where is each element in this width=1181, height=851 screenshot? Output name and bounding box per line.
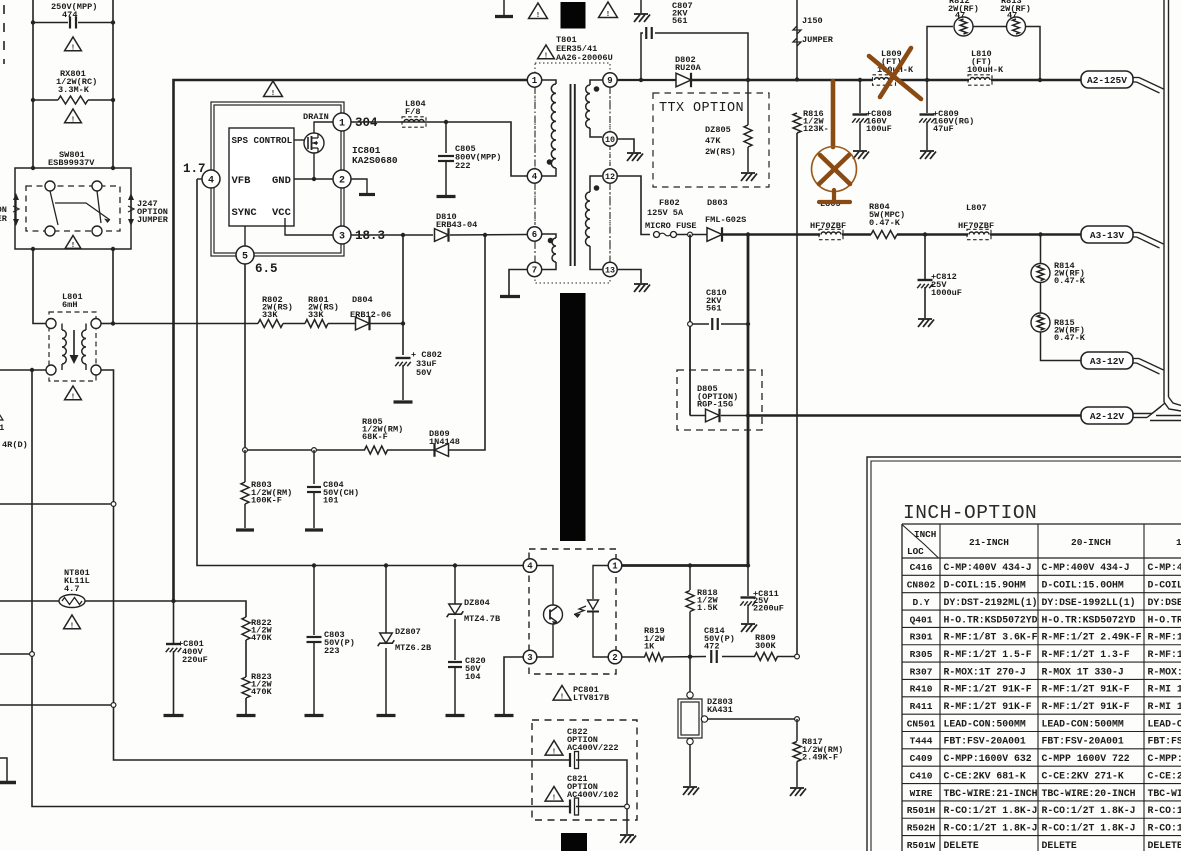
svg-text:R-MI 1: R-MI 1 (1148, 684, 1181, 695)
capacitor C801 400V 220uF (173, 601, 175, 644)
svg-text:A3-13V: A3-13V (1090, 230, 1125, 241)
pin 7 of T801 (527, 262, 541, 276)
resistor R804 5W(MPC) 0.47-K (871, 231, 897, 239)
svg-text:4: 4 (532, 172, 538, 182)
svg-text:3: 3 (339, 232, 345, 243)
svg-text:INCH: INCH (914, 529, 936, 540)
capacitor C807 2KV 561 (641, 33, 643, 80)
node ring C821 out (576, 806, 624, 808)
svg-text:R501W: R501W (907, 840, 936, 851)
ground C801 (164, 714, 184, 717)
svg-text:RGP-15G: RGP-15G (697, 400, 733, 410)
svg-text:2200uF: 2200uF (753, 603, 784, 613)
svg-text:ERB12-06: ERB12-06 (350, 310, 391, 320)
svg-text:A3-12V: A3-12V (1090, 356, 1125, 367)
svg-text:68K-F: 68K-F (362, 432, 388, 442)
optocoupler PC801 dashed box (529, 549, 616, 674)
svg-text:222: 222 (455, 161, 470, 171)
svg-text:5: 5 (242, 252, 248, 263)
resistor R803 100K-F (244, 450, 246, 482)
wire right rail L801 down (101, 370, 570, 760)
svg-text:1: 1 (612, 562, 618, 572)
svg-text:!: ! (552, 749, 556, 757)
warning triangle top right of bar (599, 2, 618, 17)
capacitor C820 50V 104 (448, 661, 462, 663)
pin 1 of PC801 (608, 559, 622, 573)
shunt regulator DZ803 KA431 (689, 657, 691, 694)
svg-text:10: 10 (605, 135, 615, 145)
connector A3-13V (1081, 226, 1133, 243)
svg-text:DRAIN: DRAIN (303, 112, 329, 122)
svg-text:2: 2 (339, 176, 345, 187)
table grid INCH-OPTION (901, 524, 903, 851)
svg-text:R-CO:1/2T 1.8K-J: R-CO:1/2T 1.8K-J (1042, 822, 1136, 833)
wire C821 node to ground (626, 809, 628, 834)
pin 12 of T801 (603, 169, 617, 183)
svg-text:R-MOX:: R-MOX: (1148, 666, 1181, 677)
PC801 light arrow (574, 606, 586, 615)
node D805 out (746, 413, 750, 417)
inductor L809 100uH-K (875, 78, 894, 80)
capacitor C810 2KV 561 (690, 323, 709, 325)
svg-text:0.47-K: 0.47-K (869, 218, 901, 228)
right edge double bus (1163, 0, 1165, 402)
svg-text:JUMPER: JUMPER (802, 35, 834, 45)
resistor DZ805 47K 2W(RS) (747, 80, 749, 125)
node J150 R816 (795, 77, 799, 81)
cut arrow left of SW801 (15, 197, 17, 222)
wire GND pin2 (294, 178, 333, 180)
svg-text:4R(D): 4R(D) (2, 440, 28, 450)
node D802 C807 (746, 78, 750, 82)
warning triangle C821 (545, 787, 563, 802)
wire y=705 from left edge to rail (0, 704, 114, 706)
wire C810 D805 right leg down to optocoupler (747, 235, 750, 566)
T801 primary winding 1-4 (542, 80, 556, 84)
wire pin9 to D802 (617, 79, 677, 81)
diode D810 ERB43-04 (435, 229, 449, 242)
ground R817 (790, 787, 804, 789)
ground C804 (305, 528, 323, 531)
svg-text:D-COIL:15.9OHM: D-COIL:15.9OHM (944, 580, 1026, 591)
ground DZ805 (741, 172, 755, 174)
wire R813 to node (1026, 27, 1041, 81)
ground C821 (620, 834, 634, 836)
svg-text:D-COIL: D-COIL (1148, 580, 1181, 591)
capacitor C809 160V(RG) 47uF (926, 80, 928, 113)
wire pin5 down to R803 node (244, 264, 246, 450)
svg-text:INCH-OPTION: INCH-OPTION (903, 502, 1037, 524)
svg-text:A2-12V: A2-12V (1090, 411, 1125, 422)
inductor L804 F/8 (404, 120, 424, 123)
inductor L810 100uH-K (970, 78, 990, 81)
svg-text:H-O.TR:KSD5072YD: H-O.TR:KSD5072YD (1042, 614, 1136, 625)
warning triangle PC801 (553, 686, 571, 701)
svg-text:D804: D804 (352, 295, 373, 305)
svg-text:C-CE:2: C-CE:2 (1148, 770, 1181, 781)
pin 4 of IC801 VFB (197, 178, 202, 180)
pin 2 of PC801 (608, 650, 622, 664)
capacitor C821 OPTION AC400V/102 (569, 800, 571, 814)
svg-text:1K: 1K (644, 642, 655, 652)
resistor R815 2W(RF) 0.47-K (1040, 283, 1042, 313)
svg-text:R-MF:1: R-MF:1 (1148, 649, 1181, 660)
svg-text:TBC-WI: TBC-WI (1148, 788, 1181, 799)
ground C803 (305, 714, 324, 717)
svg-text:AC400V/222: AC400V/222 (567, 743, 619, 753)
svg-text:VCC: VCC (272, 207, 292, 219)
node ring R809 right (795, 654, 800, 659)
svg-text:MICRO FUSE: MICRO FUSE (645, 221, 697, 231)
svg-text:470K: 470K (251, 687, 272, 697)
wire R805 D809 row (245, 449, 365, 451)
node D804 to C802 (402, 235, 404, 355)
T801 winding 9-10 (590, 80, 603, 85)
svg-text:J150: J150 (802, 16, 823, 26)
svg-text:9: 9 (607, 76, 612, 86)
warning triangle below NT801 (64, 615, 81, 629)
svg-text:33K: 33K (308, 310, 324, 320)
svg-text:LEAD-C: LEAD-C (1148, 718, 1181, 729)
warning triangle at T801 label (538, 45, 555, 59)
node C803 top (312, 563, 316, 567)
connector A3-12V (1081, 352, 1133, 369)
diode D804 ERB12-06 (356, 317, 370, 330)
capacitor C814 50V(P) 472 (710, 650, 712, 663)
svg-text:104: 104 (465, 672, 480, 682)
svg-text:1.7: 1.7 (183, 162, 206, 176)
svg-text:123K-: 123K- (803, 124, 829, 134)
svg-text:C410: C410 (910, 770, 933, 781)
wire DZ803 cathode ground (689, 745, 691, 787)
svg-text:L807: L807 (966, 203, 987, 213)
svg-text:R411: R411 (910, 701, 933, 712)
svg-text:F/8: F/8 (405, 107, 420, 117)
capacitor C812 25V 1000uF (924, 235, 926, 280)
svg-text:47uF: 47uF (933, 124, 954, 134)
ground DZ807 (377, 714, 396, 717)
wire fuse to D803 (677, 234, 708, 236)
pin 1 of T801 (527, 73, 541, 87)
svg-text:561: 561 (706, 304, 721, 314)
pin 1 of IC801 (333, 113, 351, 131)
ground top-right of T801 (640, 0, 642, 13)
svg-text:C-MP:400V 434-J: C-MP:400V 434-J (1042, 562, 1130, 573)
node L810 right (1038, 78, 1042, 82)
svg-text:47: 47 (955, 11, 965, 21)
svg-text:DZ804: DZ804 (464, 598, 490, 608)
svg-text:6mH: 6mH (62, 300, 77, 310)
ground IC801 pin2 (359, 193, 375, 196)
svg-text:!: ! (71, 116, 75, 124)
svg-text:C409: C409 (910, 753, 933, 764)
svg-text:!: ! (71, 44, 75, 52)
svg-text:A2-125V: A2-125V (1087, 75, 1127, 86)
polarity dot winding 12-13 (594, 185, 600, 191)
warning triangle top left of bar (529, 3, 548, 18)
svg-text:!: ! (70, 622, 74, 630)
wire NT801 node to R822 (174, 601, 247, 617)
capacitor C822 OPTION AC400V/222 (569, 753, 571, 767)
svg-text:H-O.TR: H-O.TR (1148, 614, 1181, 625)
T801 winding 6-7 (542, 234, 556, 238)
svg-text:7: 7 (532, 266, 537, 276)
svg-text:101: 101 (323, 496, 338, 506)
annotation brown circle with X over L805 (812, 147, 857, 192)
svg-text:R-MF:1/2T 91K-F: R-MF:1/2T 91K-F (944, 701, 1032, 712)
svg-text:R-MF:1/8T 3.6K-F: R-MF:1/8T 3.6K-F (944, 632, 1038, 643)
pin 4 of T801 (527, 169, 541, 183)
svg-text:JUMPER: JUMPER (137, 215, 169, 225)
svg-text:2.49K-F: 2.49K-F (802, 753, 838, 763)
wire D802 out (692, 79, 873, 81)
svg-text:21-INCH: 21-INCH (969, 537, 1009, 548)
svg-text:4.7: 4.7 (64, 584, 79, 594)
resistor R817 2.49K-F (796, 719, 798, 741)
PC801 internal LED (593, 566, 609, 600)
svg-text:R305: R305 (910, 649, 933, 660)
polarity dot winding 1-4 (547, 159, 553, 165)
svg-text:!: ! (71, 393, 75, 401)
svg-text:FBT:FSV-20A001: FBT:FSV-20A001 (944, 736, 1026, 747)
svg-text:R-CO:1: R-CO:1 (1148, 805, 1181, 816)
diode D802 RU20A (676, 73, 691, 87)
svg-text:!: ! (606, 11, 610, 19)
svg-text:C-CE:2KV 271-K: C-CE:2KV 271-K (1042, 770, 1124, 781)
ground C811 (741, 623, 755, 625)
svg-text:DELETE: DELETE (944, 840, 979, 851)
warning triangle below C474 (65, 37, 82, 51)
svg-text:LOC: LOC (907, 546, 924, 557)
svg-text:Q401: Q401 (910, 614, 933, 625)
svg-text:R410: R410 (910, 684, 933, 695)
connector A2-125V (1081, 71, 1133, 88)
wire left rail L801 to bottom bus (32, 370, 570, 807)
wire pin2 to ground (351, 179, 367, 193)
zener DZ807 MTZ6.2B (385, 566, 387, 634)
svg-text:D803: D803 (707, 198, 728, 208)
svg-text:ESB99937V: ESB99937V (48, 158, 95, 168)
resistor R819 1K (645, 653, 664, 661)
black bar bottom (561, 833, 587, 851)
table header diagonal (903, 525, 939, 558)
svg-text:47: 47 (1007, 11, 1017, 21)
svg-text:WIRE: WIRE (910, 788, 933, 799)
wire VCC to pin3 (285, 218, 333, 235)
svg-text:R-MF:1/2T 1.5-F: R-MF:1/2T 1.5-F (944, 649, 1032, 660)
svg-text:47K: 47K (705, 136, 721, 146)
svg-text:DZ807: DZ807 (395, 627, 421, 637)
svg-text:100uF: 100uF (866, 124, 892, 134)
resistor R816 123K (793, 113, 801, 133)
node R814 top (1038, 232, 1042, 236)
svg-text:R-MI 1: R-MI 1 (1148, 701, 1181, 712)
warning triangle below L801 (65, 386, 82, 400)
wire pin3 to D810 to T801 pin6 (351, 234, 433, 236)
ground DZ803 (683, 786, 697, 788)
svg-text:4: 4 (527, 562, 533, 572)
svg-text:33K: 33K (262, 310, 278, 320)
wire pin2 row R819 C814 R809 (622, 656, 646, 658)
svg-text:12: 12 (605, 172, 615, 182)
capacitor 474 250V(MPP) (33, 22, 68, 24)
svg-text:LTV817B: LTV817B (573, 693, 609, 703)
annotation brown stroke down from A2-125V line (831, 81, 836, 147)
svg-text:FML-G02S: FML-G02S (705, 215, 746, 225)
svg-text:2: 2 (612, 653, 617, 663)
svg-text:!: ! (271, 90, 275, 98)
ground C812 (918, 318, 932, 320)
svg-text:H-O.TR:KSD5072YD: H-O.TR:KSD5072YD (944, 614, 1038, 625)
wire left rail upper x=33 (32, 0, 34, 168)
svg-text:!: ! (536, 12, 540, 20)
svg-text:C-MPP:: C-MPP: (1148, 753, 1181, 764)
svg-text:R501H: R501H (907, 805, 936, 816)
svg-text:100K-F: 100K-F (251, 496, 282, 506)
svg-text:R-CO:1/2T 1.8K-J: R-CO:1/2T 1.8K-J (944, 805, 1038, 816)
svg-text:R307: R307 (910, 666, 933, 677)
svg-text:GND: GND (272, 175, 291, 187)
wire mosfet source to GND (313, 153, 315, 179)
node C805 top (444, 120, 448, 124)
wire R802 row from L801 (113, 323, 258, 325)
svg-text:3.3M-K: 3.3M-K (58, 85, 90, 95)
T801 centerline pins 1-4-6-7 (534, 87, 536, 169)
svg-text:]1: ]1 (0, 423, 4, 433)
wire from left edge to L801 bottom-left (0, 369, 46, 371)
pin 6 of T801 (527, 227, 541, 241)
svg-text:100uH-K: 100uH-K (967, 65, 1004, 75)
TTX OPTION dashed box (653, 93, 769, 187)
svg-text:474: 474 (62, 10, 77, 20)
svg-text:223: 223 (324, 646, 339, 656)
svg-text:1: 1 (1176, 537, 1181, 548)
ground T801 pin13 (634, 283, 648, 285)
svg-text:R-MOX 1T 330-J: R-MOX 1T 330-J (1042, 666, 1124, 677)
capacitor C811 25V 2200uF (747, 566, 749, 597)
svg-text:125V 5A: 125V 5A (647, 208, 684, 218)
T801 core (570, 84, 572, 266)
svg-text:470K: 470K (251, 633, 272, 643)
pin 9 of T801 (603, 73, 617, 87)
svg-text:4: 4 (208, 176, 214, 187)
wire pin12 to fuse (617, 176, 650, 235)
svg-text:1: 1 (339, 119, 345, 130)
node C804 top (312, 448, 317, 453)
wire R815 to A3-12V (1041, 332, 1083, 361)
wire R823 to ground (245, 698, 247, 714)
svg-text:R-MF:1: R-MF:1 (1148, 632, 1181, 643)
svg-text:TBC-WIRE:21-INCH: TBC-WIRE:21-INCH (944, 788, 1038, 799)
PC801 internal phototransistor (537, 566, 554, 606)
pin 3 of PC801 (523, 650, 537, 664)
dashed line top left edge (3, 5, 5, 64)
resistor R801 33K (305, 320, 328, 328)
warning triangle inside SW801 (65, 236, 81, 249)
resistor R813 2W(RF) 47 (1007, 17, 1026, 36)
svg-text:F802: F802 (659, 198, 680, 208)
T801 winding 12-13 (590, 176, 602, 192)
svg-text:!: ! (71, 242, 75, 250)
resistor R805 68K-F (365, 446, 388, 454)
IC801 inner control box (229, 128, 294, 226)
node C801 top (171, 599, 175, 603)
ground top-left of T801 (503, 0, 505, 15)
svg-text:1: 1 (532, 76, 538, 86)
wire pin1 to L804 to T801 pin4 (351, 122, 527, 176)
svg-text:D-COIL:15.0OHM: D-COIL:15.0OHM (1042, 580, 1124, 591)
svg-text:LEAD-CON:500MM: LEAD-CON:500MM (944, 718, 1026, 729)
svg-text:20-INCH: 20-INCH (1071, 537, 1111, 548)
svg-text:C416: C416 (910, 562, 933, 573)
node L809 right (925, 78, 929, 82)
svg-text:HF70ZBF: HF70ZBF (958, 221, 994, 231)
svg-text:C-MP:400V 434-J: C-MP:400V 434-J (944, 562, 1032, 573)
wire between R812 R813 (973, 26, 1006, 28)
svg-text:CN802: CN802 (907, 580, 936, 591)
svg-text:R-MF:1/2T 91K-F: R-MF:1/2T 91K-F (1042, 701, 1130, 712)
wire R816 down through to R809 node (796, 133, 798, 657)
svg-text:6.5: 6.5 (255, 262, 278, 276)
resistor R814 2W(RF) 0.47-K (1040, 235, 1042, 264)
svg-text:FBT:FSV-20A001: FBT:FSV-20A001 (1042, 736, 1124, 747)
svg-text:DELETE: DELETE (1148, 840, 1181, 851)
wire B+ frame from T801 pin1 to C801 (174, 80, 528, 601)
annotation brown X over L809 (869, 56, 921, 99)
svg-text:TTX OPTION: TTX OPTION (659, 101, 744, 116)
label fragment left edge 4R(D) (0, 412, 3, 420)
wire D803 out A3-13V (723, 233, 820, 235)
svg-text:AC400V/102: AC400V/102 (567, 790, 619, 800)
wire R822 to R823 (245, 640, 247, 677)
svg-text:DY:DSE-1992LL(1): DY:DSE-1992LL(1) (1042, 597, 1136, 608)
pin 5 of IC801 (236, 246, 254, 264)
svg-text:304: 304 (355, 116, 378, 130)
svg-text:1000uF: 1000uF (931, 288, 962, 298)
svg-text:6: 6 (532, 230, 537, 240)
black bar top (561, 2, 586, 29)
svg-text:18.3: 18.3 (355, 229, 385, 243)
svg-text:FBT:FS: FBT:FS (1148, 736, 1181, 747)
wire SYNC to pin5 (244, 226, 246, 246)
resistor RX801 3.3M-K (33, 99, 58, 101)
node R818 top (688, 563, 692, 567)
svg-text:R-MF:1/2T 91K-F: R-MF:1/2T 91K-F (1042, 684, 1130, 695)
svg-text:T444: T444 (910, 736, 933, 747)
resistor R802 33K (258, 320, 283, 328)
option dashed box C821 C822 (532, 720, 637, 820)
svg-text:DELETE: DELETE (1042, 840, 1077, 851)
wire pin7 to ground (509, 270, 527, 296)
wire pin10 to ground (617, 139, 634, 152)
wire A2-12V rail (748, 414, 1082, 417)
node and wire y=654 from left edge (0, 653, 33, 655)
svg-text:300K: 300K (755, 641, 776, 651)
ground C808 (853, 150, 867, 152)
ground C802 (394, 400, 413, 403)
svg-text:CN501: CN501 (907, 718, 936, 729)
diode D803 FML-G02S (707, 228, 722, 242)
inductor L807 HF70ZBF (969, 232, 989, 235)
svg-text:1.5K: 1.5K (697, 603, 718, 613)
option dashed box D805 (677, 370, 762, 430)
node D810 left (401, 233, 405, 237)
svg-text:ERB43-04: ERB43-04 (436, 220, 477, 230)
svg-text:2W(RS): 2W(RS) (705, 147, 736, 157)
svg-text:R-MF:1/2T 91K-F: R-MF:1/2T 91K-F (944, 684, 1032, 695)
wire DZ803 ref to divider (708, 718, 798, 720)
resistor R809 300K (755, 653, 778, 661)
